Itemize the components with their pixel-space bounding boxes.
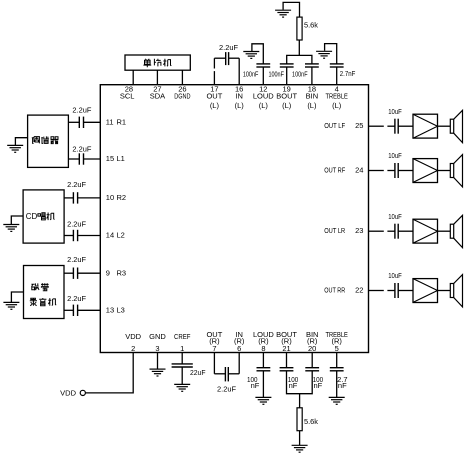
capacitor C20 100nF (BIN R) bbox=[305, 368, 319, 371]
svg-text:1: 1 bbox=[180, 344, 184, 353]
wire resistor to ground hook bbox=[283, 2, 299, 17]
wire C6 to pin11 bbox=[84, 121, 101, 123]
svg-text:R2: R2 bbox=[117, 193, 127, 202]
svg-text:(L): (L) bbox=[235, 101, 245, 110]
ground (CREF) bbox=[174, 384, 190, 391]
svg-text:R3: R3 bbox=[117, 268, 127, 277]
svg-text:22uF: 22uF bbox=[190, 368, 206, 377]
tape recorder box (磁带录音机) bbox=[24, 266, 65, 319]
capacitor C10 2.2uF (R3 in) bbox=[73, 268, 77, 279]
wire SDA pin27 bbox=[156, 70, 158, 85]
svg-text:10uF: 10uF bbox=[388, 212, 402, 221]
pin 22 OUT RR labels bbox=[324, 286, 363, 295]
capacitor 10uF C13 bbox=[395, 163, 398, 178]
wire BOUT-BIN R junction bbox=[287, 371, 313, 394]
wire cap to amp bbox=[398, 170, 413, 172]
amplifier A3 bbox=[413, 219, 438, 243]
capacitor C6 2.2uF (R1 in) bbox=[79, 117, 83, 128]
capacitor C1 2.2uF (between OUT L / IN L) bbox=[226, 52, 229, 65]
pin 4 TREBLE (L) labels bbox=[326, 84, 348, 110]
capacitor C2 100nF (LOUD L) bbox=[256, 64, 270, 67]
pin 24 OUT RF labels bbox=[324, 166, 363, 175]
ground (TREBLE R) bbox=[329, 397, 345, 404]
svg-text:LOUD: LOUD bbox=[253, 92, 274, 101]
svg-text:2.2uF: 2.2uF bbox=[67, 220, 86, 229]
wire pin25 out bbox=[369, 125, 395, 127]
CD player box (CD唱机) bbox=[23, 190, 64, 243]
svg-text:(L): (L) bbox=[210, 101, 220, 110]
label 调谐器 bbox=[32, 137, 40, 144]
wire pin6 riser bbox=[238, 353, 240, 374]
svg-text:L2: L2 bbox=[117, 231, 125, 240]
capacitor C5 2.7nF (TREBLE L) bbox=[330, 64, 344, 67]
svg-text:nF: nF bbox=[314, 381, 323, 390]
wire pin17 riser bbox=[213, 58, 215, 84]
pin 5 TREBLE (R) labels bbox=[326, 330, 348, 353]
pin 28 SCL labels bbox=[120, 84, 135, 100]
capacitor C4 100nF (BIN L) bbox=[305, 64, 319, 67]
svg-text:24: 24 bbox=[355, 166, 363, 175]
svg-text:2.2uF: 2.2uF bbox=[217, 385, 236, 394]
wire C9 to pin14 bbox=[78, 235, 101, 237]
svg-text:CD: CD bbox=[26, 212, 38, 221]
pin 7 OUT (R) labels bbox=[206, 330, 222, 353]
ground (GND pin) bbox=[150, 369, 166, 376]
wire CD to C9 bbox=[64, 235, 73, 237]
svg-text:nF: nF bbox=[338, 381, 347, 390]
svg-text:BIN: BIN bbox=[306, 92, 319, 101]
svg-text:OUT LR: OUT LR bbox=[324, 226, 345, 235]
amplifier A1 bbox=[413, 114, 438, 138]
pin 20 BIN (R) labels bbox=[306, 330, 319, 353]
capacitor C7 2.2uF (L1 in) bbox=[79, 153, 83, 164]
wire pin18 stub bbox=[311, 67, 313, 85]
pin 18 BIN (L) labels bbox=[306, 84, 319, 110]
pin 13 L3 labels bbox=[106, 306, 125, 315]
svg-text:5.6k: 5.6k bbox=[304, 20, 318, 29]
wire pin8 stub bbox=[262, 353, 264, 368]
wire pin20 stub bbox=[311, 353, 313, 368]
svg-text:10uF: 10uF bbox=[388, 107, 402, 116]
wire CD to C8 bbox=[64, 197, 73, 199]
svg-text:2.2uF: 2.2uF bbox=[67, 180, 86, 189]
svg-text:2.7nF: 2.7nF bbox=[340, 69, 356, 78]
wire tape ground bbox=[11, 292, 23, 302]
pin 21 BOUT (R) labels bbox=[276, 330, 297, 353]
svg-text:L3: L3 bbox=[117, 306, 125, 315]
wire pin12 stub bbox=[262, 67, 264, 85]
pin 1 CREF labels bbox=[174, 332, 191, 353]
svg-text:CREF: CREF bbox=[174, 332, 191, 341]
svg-text:OUT: OUT bbox=[206, 92, 222, 101]
svg-text:2.2uF: 2.2uF bbox=[67, 255, 86, 264]
wire amp to speaker bbox=[438, 125, 451, 127]
svg-text:7: 7 bbox=[212, 344, 216, 353]
svg-text:nF: nF bbox=[251, 381, 260, 390]
pin 17 OUT (L) labels bbox=[206, 84, 222, 110]
svg-text:R1: R1 bbox=[117, 118, 127, 127]
wire resistor R2 to ground bbox=[299, 431, 301, 445]
wire cap to amp bbox=[398, 230, 413, 232]
resistor R2 5.6k bbox=[297, 408, 302, 431]
capacitor C9 2.2uF (L2 in) bbox=[73, 230, 77, 241]
svg-text:3: 3 bbox=[155, 344, 159, 353]
svg-text:23: 23 bbox=[355, 226, 363, 235]
wire C11 to pin13 bbox=[78, 309, 101, 311]
wire amp to speaker bbox=[438, 290, 451, 292]
wire cap C1 left lead bbox=[214, 57, 225, 59]
pin 15 L1 labels bbox=[106, 154, 125, 163]
pin 14 L2 labels bbox=[106, 231, 125, 240]
wire pin4 stub bbox=[336, 67, 338, 85]
svg-text:2.2uF: 2.2uF bbox=[72, 106, 91, 115]
svg-text:BOUT: BOUT bbox=[276, 92, 297, 101]
capacitor C21 2.7nF (TREBLE R) bbox=[330, 368, 344, 371]
wire C10 to pin9 bbox=[78, 272, 101, 274]
svg-text:15: 15 bbox=[106, 154, 114, 163]
capacitor C19 100nF (BOUT R) bbox=[280, 368, 294, 371]
svg-text:L1: L1 bbox=[117, 154, 125, 163]
svg-text:13: 13 bbox=[106, 306, 114, 315]
capacitor C11 2.2uF (L3 in) bbox=[73, 305, 77, 316]
capacitor C8 2.2uF (R2 in) bbox=[73, 192, 77, 203]
speaker LS4 bbox=[450, 275, 462, 307]
wire CD ground bbox=[11, 216, 23, 224]
wire pin16 riser bbox=[238, 58, 240, 84]
label 单片机 bbox=[143, 59, 151, 67]
pin 8 LOUD (R) labels bbox=[253, 330, 274, 353]
wire junction to resistor bbox=[298, 39, 300, 55]
capacitor C3 100nF (BOUT L) bbox=[280, 64, 294, 67]
svg-text:22: 22 bbox=[355, 286, 363, 295]
wire cap to amp bbox=[398, 125, 413, 127]
svg-text:OUT LF: OUT LF bbox=[324, 121, 345, 130]
pin 6 IN (R) labels bbox=[234, 330, 245, 353]
svg-text:VDD: VDD bbox=[125, 332, 141, 341]
label 2.7 nF bbox=[337, 375, 347, 390]
wire pin19 stub bbox=[286, 67, 288, 85]
wire cap to amp bbox=[398, 290, 413, 292]
wire pin22 out bbox=[369, 290, 395, 292]
wire cap C1 right lead bbox=[229, 57, 240, 59]
svg-text:2: 2 bbox=[131, 344, 135, 353]
amplifier A2 bbox=[413, 159, 438, 183]
svg-text:10uF: 10uF bbox=[388, 271, 402, 280]
capacitor 10uF C15 bbox=[395, 283, 398, 298]
wire amp to speaker bbox=[438, 230, 451, 232]
pin 9 R3 labels bbox=[106, 268, 126, 277]
svg-text:DGND: DGND bbox=[174, 92, 191, 101]
wire pin4 cap to ground hook bbox=[325, 44, 337, 64]
wire pin8 cap to ground bbox=[262, 371, 264, 397]
svg-text:(L): (L) bbox=[307, 101, 317, 110]
svg-text:2.2uF: 2.2uF bbox=[72, 145, 91, 154]
pin 27 SDA labels bbox=[150, 84, 165, 100]
svg-text:OUT RF: OUT RF bbox=[324, 166, 345, 175]
wire tuner ground bbox=[15, 138, 27, 145]
speaker LS2 bbox=[450, 155, 462, 187]
wire pin5 stub bbox=[336, 353, 338, 368]
wire CREF cap to ground bbox=[181, 367, 183, 384]
svg-text:20: 20 bbox=[308, 344, 316, 353]
wire SCL pin28 bbox=[132, 70, 134, 85]
capacitor C18 100nF (LOUD R) bbox=[257, 368, 271, 371]
pin 25 OUT LF labels bbox=[324, 121, 363, 130]
wire junction to resistor R2 bbox=[299, 394, 301, 408]
label 100 nF bbox=[247, 375, 260, 390]
pin 10 R2 labels bbox=[106, 193, 126, 202]
pin 2 VDD labels bbox=[125, 332, 141, 353]
wire amp to speaker bbox=[438, 170, 451, 172]
VDD terminal circle bbox=[80, 390, 85, 395]
svg-text:10uF: 10uF bbox=[388, 151, 402, 160]
svg-text:100nF: 100nF bbox=[268, 70, 284, 79]
pin 3 GND labels bbox=[149, 332, 166, 353]
pin 26 DGND labels bbox=[174, 84, 191, 100]
IC U1 TDA7313 main box bbox=[100, 85, 368, 353]
svg-text:(L): (L) bbox=[282, 101, 292, 110]
capacitor 10uF C14 bbox=[395, 224, 398, 239]
wire cap C17 right lead bbox=[228, 373, 239, 375]
svg-text:OUT RR: OUT RR bbox=[324, 286, 345, 295]
svg-text:9: 9 bbox=[106, 268, 110, 277]
wire GND pin3 bbox=[157, 353, 159, 369]
pin 16 IN (L) labels bbox=[235, 84, 245, 110]
svg-text:2.2uF: 2.2uF bbox=[219, 43, 238, 52]
tuner box (调谐器) bbox=[28, 115, 69, 167]
wire tuner to C7 bbox=[68, 158, 79, 160]
wire VDD pin2 to terminal bbox=[86, 353, 134, 393]
wire tape to C10 bbox=[64, 272, 73, 274]
svg-text:100nF: 100nF bbox=[292, 70, 308, 79]
svg-text:IN: IN bbox=[235, 92, 243, 101]
wire tuner to C6 bbox=[68, 121, 79, 123]
svg-text:GND: GND bbox=[149, 332, 166, 341]
label 录音机 bbox=[30, 298, 37, 305]
svg-text:nF: nF bbox=[289, 381, 298, 390]
svg-text:(L): (L) bbox=[259, 101, 269, 110]
svg-text:100nF: 100nF bbox=[243, 70, 259, 79]
label 磁带 bbox=[31, 283, 39, 290]
svg-text:10: 10 bbox=[106, 193, 114, 202]
svg-text:8: 8 bbox=[261, 344, 265, 353]
wire pin23 out bbox=[369, 230, 395, 232]
wire cap C17 left lead bbox=[214, 373, 225, 375]
wire pin7 riser bbox=[213, 353, 215, 374]
ground (CD) bbox=[3, 225, 19, 232]
wire C8 to pin10 bbox=[78, 197, 101, 199]
svg-text:SCL: SCL bbox=[120, 92, 135, 101]
wire BOUT-BIN junction bbox=[287, 55, 312, 64]
svg-text:SDA: SDA bbox=[150, 92, 165, 101]
svg-text:2.2uF: 2.2uF bbox=[67, 294, 86, 303]
speaker LS3 bbox=[450, 215, 462, 247]
svg-text:5.6k: 5.6k bbox=[304, 417, 318, 426]
wire pin21 stub bbox=[286, 353, 288, 368]
label 100 nF bbox=[313, 375, 324, 390]
svg-text:21: 21 bbox=[282, 344, 290, 353]
svg-text:(L): (L) bbox=[332, 101, 342, 110]
wire pin12 cap to ground hook bbox=[252, 44, 263, 64]
ground (top 5.6k) bbox=[275, 10, 291, 17]
pin 19 BOUT (L) labels bbox=[276, 84, 297, 110]
ground (TREBLE L) bbox=[316, 51, 332, 58]
svg-text:VDD: VDD bbox=[60, 388, 76, 397]
amplifier A4 bbox=[413, 279, 438, 303]
label 100 nF bbox=[288, 375, 299, 390]
ground (tape) bbox=[3, 302, 19, 309]
svg-text:TREBLE: TREBLE bbox=[326, 92, 348, 101]
wire CREF pin1 stub bbox=[181, 353, 183, 364]
wire tape to C11 bbox=[64, 309, 73, 311]
microcontroller box (单片机) bbox=[125, 55, 190, 70]
capacitor C17 2.2uF (OUT R / IN R) bbox=[225, 367, 228, 381]
svg-text:25: 25 bbox=[355, 121, 363, 130]
pin 11 R1 labels bbox=[106, 118, 126, 127]
pin 23 OUT LR labels bbox=[324, 226, 363, 235]
ground (LOUD L) bbox=[243, 52, 259, 59]
wire pin24 out bbox=[369, 170, 395, 172]
speaker LS1 bbox=[450, 110, 462, 142]
resistor R1 5.6k bbox=[297, 17, 302, 40]
pin 12 LOUD (L) labels bbox=[253, 84, 274, 110]
capacitor C16 22uF (CREF) bbox=[172, 364, 193, 367]
ground (LOUD R) bbox=[255, 397, 271, 404]
svg-text:11: 11 bbox=[106, 118, 114, 127]
wire DGND pin26 bbox=[181, 70, 183, 85]
wire pin5 cap to ground bbox=[336, 371, 338, 397]
wire C7 to pin15 bbox=[84, 158, 101, 160]
ground (bottom 5.6k) bbox=[292, 445, 308, 452]
ground (tuner) bbox=[7, 145, 23, 152]
svg-text:6: 6 bbox=[237, 344, 241, 353]
svg-text:14: 14 bbox=[106, 231, 114, 240]
capacitor 10uF C12 bbox=[395, 119, 398, 134]
svg-text:5: 5 bbox=[335, 344, 339, 353]
